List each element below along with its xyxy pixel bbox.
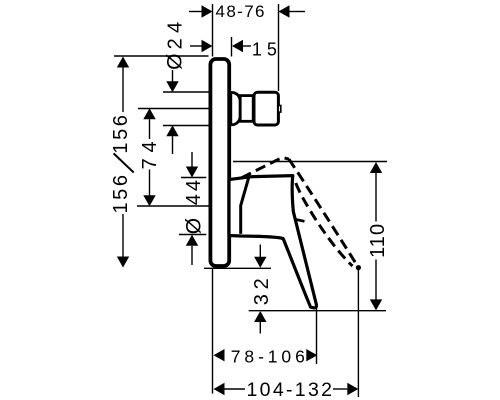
extension line: cartridge centerline (74 top) bbox=[138, 108, 209, 110]
extension line: raised lever top (110 top) bbox=[233, 161, 387, 163]
dimension 156/156 (vertical, rotated label) bbox=[110, 57, 134, 268]
extension line: plate bottom (32 top) bbox=[204, 267, 271, 269]
handle parting tick bbox=[295, 219, 305, 221]
extension line: cartridge top (O24 top) bbox=[163, 91, 209, 93]
dimension 15 bbox=[190, 39, 277, 59]
svg-text:156: 156 bbox=[110, 175, 132, 214]
extension line: plate front face tick (15) bbox=[231, 37, 233, 57]
extension line: grip tip vertical (78-106 right) bbox=[316, 304, 318, 365]
svg-text:110: 110 bbox=[367, 224, 389, 258]
extension line: plate back face top bbox=[212, 4, 214, 57]
extension line: cap right face (48-76 right) bbox=[278, 4, 280, 91]
cartridge cylinder bbox=[240, 96, 253, 122]
dimension 48-76 bbox=[189, 2, 305, 21]
dimension 104-132 bbox=[214, 379, 359, 400]
extension line: sleeve top (O44 top) bbox=[181, 177, 206, 179]
cap right-face nub bbox=[278, 106, 281, 113]
cartridge bump at plate front bbox=[231, 92, 240, 124]
svg-text:48-76: 48-76 bbox=[216, 2, 265, 21]
dimension 110 (vertical, rotated label) bbox=[367, 162, 389, 310]
extension line: sleeve bottom (O44 bottom) bbox=[179, 234, 206, 236]
extension line: grip tip level (32/110 bottom) bbox=[249, 310, 386, 312]
handle body + grip outline bbox=[229, 176, 316, 308]
dashed raised-lever underside bbox=[296, 183, 353, 266]
dimension O24 (vertical, rotated label) bbox=[164, 22, 187, 154]
dimension 74 (vertical, rotated label) bbox=[139, 108, 161, 206]
extension line: plate top (156/156 top) bbox=[114, 55, 209, 57]
dimension O44 (vertical, rotated label) bbox=[182, 152, 205, 265]
svg-text:156: 156 bbox=[110, 115, 132, 154]
dimension 78-106 bbox=[214, 347, 318, 367]
dashed lever tip dot bbox=[356, 265, 361, 270]
cartridge end cap bbox=[254, 92, 278, 125]
sleeve/handle boundary line bbox=[241, 177, 249, 234]
dimension 32 (vertical, rotated label) bbox=[251, 245, 273, 334]
dashed raised-lever upper edge bbox=[289, 159, 358, 267]
extension line: plate back face bottom bbox=[212, 269, 214, 394]
dashed raised-lever top profile bbox=[242, 157, 290, 178]
svg-text:Ø: Ø bbox=[164, 54, 187, 70]
extension line: cartridge bottom (O24 bottom) bbox=[163, 125, 209, 127]
wall plate (escutcheon side view) bbox=[210, 59, 229, 266]
extension line: dashed tip vertical (104-132 right) bbox=[357, 270, 359, 397]
svg-text:Ø: Ø bbox=[182, 218, 205, 234]
extension line: valve centerline (74 bottom) bbox=[137, 205, 209, 207]
